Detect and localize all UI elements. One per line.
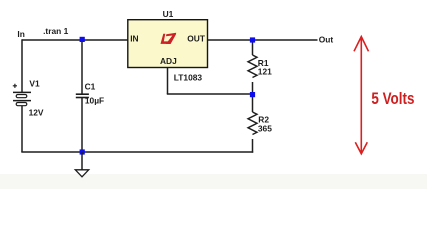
- junction: ground rail / GND tee: [80, 149, 85, 154]
- node label In: [17, 29, 24, 39]
- wire top rail left: In to U1 IN pin: [22, 39, 128, 41]
- wire R1 bottom to ADJ junction to R2 top: [252, 82, 254, 112]
- svg-text:12V: 12V: [29, 108, 44, 118]
- value LT1083: [174, 72, 203, 82]
- resistor R1: [248, 55, 257, 78]
- svg-text:OUT: OUT: [187, 34, 206, 44]
- wire bottom ground rail: [21, 151, 253, 153]
- junction: top rail / C1 tee: [80, 37, 85, 42]
- wire left vertical: In corner down to V1: [21, 39, 23, 92]
- wire V1 bottom to ground rail: [21, 106, 23, 153]
- value 10uF: [85, 95, 104, 105]
- svg-text:121: 121: [258, 66, 272, 76]
- svg-text:V1: V1: [29, 78, 40, 88]
- pin OUT: [187, 34, 206, 44]
- label U1: [163, 9, 174, 19]
- svg-text:C1: C1: [85, 82, 96, 92]
- wire C1 top: junction down to capacitor: [81, 40, 83, 94]
- svg-text:365: 365: [258, 123, 272, 133]
- label R2: [258, 114, 269, 124]
- wire ADJ vertical from U1: [167, 67, 169, 94]
- voltage source V1 (battery symbol): [13, 84, 31, 106]
- junction: ADJ / R1 / R2: [250, 92, 255, 97]
- svg-text:ADJ: ADJ: [160, 56, 177, 66]
- node label Out: [319, 35, 334, 45]
- regulator U1 body: [128, 20, 208, 68]
- wire C1 bottom to ground rail: [81, 98, 83, 152]
- svg-text:10µF: 10µF: [85, 95, 104, 105]
- pin IN: [130, 34, 138, 44]
- value 12V: [29, 108, 44, 118]
- svg-text:U1: U1: [163, 9, 174, 19]
- label C1: [85, 82, 96, 92]
- resistor R2: [248, 112, 257, 135]
- svg-text:In: In: [17, 29, 24, 39]
- value 121: [258, 66, 272, 76]
- annotation arrow 5 Volts (double-headed red): [354, 37, 369, 154]
- label V1: [29, 78, 40, 88]
- svg-text:LT1083: LT1083: [174, 72, 203, 82]
- ground symbol: [75, 152, 88, 177]
- junction: top rail / R1 tee: [250, 37, 255, 42]
- wire OUT junction down to R1: [252, 40, 254, 55]
- capacitor C1: [76, 94, 89, 97]
- svg-text:.tran 1: .tran 1: [43, 26, 68, 36]
- value 365: [258, 123, 272, 133]
- pin ADJ: [160, 56, 177, 66]
- spice directive .tran 1: [43, 26, 68, 36]
- wire R2 bottom to ground rail: [252, 139, 254, 153]
- svg-text:5 Volts: 5 Volts: [371, 90, 414, 109]
- LT logo: [161, 33, 177, 44]
- svg-text:Out: Out: [319, 35, 334, 45]
- wire top rail right: U1 OUT pin to Out: [208, 39, 318, 41]
- svg-text:IN: IN: [130, 34, 138, 44]
- wire ADJ horizontal to R divider junction: [167, 93, 253, 95]
- annotation text 5 Volts: [371, 90, 414, 109]
- label R1: [258, 58, 269, 68]
